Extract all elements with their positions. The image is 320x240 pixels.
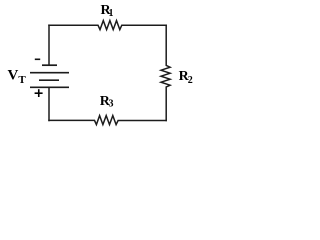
svg-text:2: 2 <box>188 75 193 86</box>
svg-text:T: T <box>18 74 26 86</box>
svg-text:V: V <box>8 68 19 84</box>
svg-text:1: 1 <box>109 8 114 19</box>
svg-text:3: 3 <box>109 99 114 110</box>
